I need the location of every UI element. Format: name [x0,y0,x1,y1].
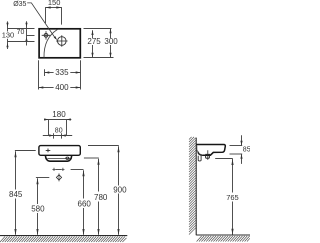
svg-text:Ø35: Ø35 [13,1,26,8]
extension line for 765 [215,158,233,160]
drain circle (plan) [58,37,67,46]
floor line (side view) [196,234,250,236]
svg-text:70: 70 [17,29,25,36]
svg-text:900: 900 [113,186,127,195]
faucet hole cross (front view) [46,149,51,153]
extension line for 845 [15,150,36,152]
extension line for 780 [84,157,99,159]
faucet hole circle (plan) [44,33,48,37]
svg-text:150: 150 [48,0,61,7]
dimension 130 (plan, left) [7,21,9,49]
dimension 900 [118,146,120,235]
fixing hole tick right (front) [61,168,64,171]
reference line to 580 [36,177,49,179]
faucet hole centerline cross (plan) [42,31,51,39]
dimension 400 (plan, bottom) [39,87,81,89]
dimension 275 (plan, right) [92,30,94,57]
bowl underside inner line (front view) [47,158,70,160]
extension line for 900 [88,145,119,147]
svg-text:765: 765 [226,193,239,202]
basin outer rim rectangle (plan) [39,29,80,58]
floor hatching (left view) [0,237,127,243]
drain outlet diamond symbol (front) [56,175,61,180]
dimension 300 (plan, right) [110,29,112,58]
floor line (left view) [0,235,127,237]
svg-text:400: 400 [55,83,69,92]
leader arrowhead [54,36,58,40]
dimension 780 [98,159,100,235]
drain centerline cross (plan) [56,35,68,47]
basin profile (side view) [196,145,225,156]
svg-text:335: 335 [55,68,69,77]
basin inner bowl outline curve (plan) [44,29,58,57]
bottom extension lines (plan) [39,60,81,89]
dimension 335 (plan, bottom) [45,72,81,74]
basin back edge (side view) [196,146,198,152]
dimension 85 (side) [230,135,243,164]
svg-text:580: 580 [31,205,45,214]
drain cup below bowl (side view) [206,155,210,158]
dimension 765 [232,159,234,235]
left extension lines (plan) [8,29,35,42]
line between ticks [56,169,62,171]
bowl underside (front view) [45,156,71,162]
dimension 580 [37,178,39,235]
svg-text:85: 85 [243,146,250,153]
drain centerline (side view) [205,150,210,160]
wall line [195,138,197,236]
svg-text:275: 275 [87,37,101,46]
svg-text:845: 845 [9,190,23,199]
dimension 845 [15,151,17,235]
drain outlet vertical centerline [58,173,60,181]
svg-text:180: 180 [52,110,66,119]
svg-text:780: 780 [94,193,108,202]
overflow detail (front view) [66,157,69,159]
dimension 660 [83,170,85,235]
svg-text:660: 660 [78,200,92,209]
wall hatching [189,137,196,235]
leader line from Ø35 to drain [27,3,55,39]
basin inner bowl line (side view) [197,150,203,155]
dimension 150 (plan, top) [46,7,62,25]
reference line to 660 [71,169,84,171]
right extension lines (plan) [84,29,114,58]
mounting stub below bowl left (side view) [198,156,201,161]
fixing hole tick left (front) [52,168,55,171]
svg-text:130: 130 [2,30,15,39]
floor hatching (side view) [197,236,250,242]
svg-text:300: 300 [104,37,118,46]
dimension 70 (plan, left) [26,21,28,45]
basin body (front view) [39,146,80,156]
